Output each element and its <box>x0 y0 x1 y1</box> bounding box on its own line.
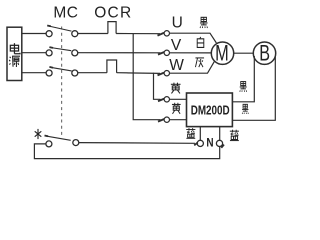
MC contact 2 <box>46 50 52 56</box>
terminal U <box>164 31 169 36</box>
terminal V <box>164 50 169 55</box>
svg-text:V: V <box>171 37 182 54</box>
tap from L1 down to DM200D <box>133 34 160 120</box>
aux contact (*) <box>46 141 52 147</box>
tap from L3 down to DM200D <box>154 73 161 100</box>
brake lead right <box>233 57 276 121</box>
blue lead right from box bottom <box>219 127 221 141</box>
brake B <box>253 42 275 64</box>
label gray (W wire) <box>195 58 204 67</box>
terminal yellow 1 <box>164 97 169 102</box>
wire L1 from box <box>22 33 46 35</box>
svg-text:MC: MC <box>53 4 78 21</box>
svg-text:M: M <box>215 40 229 65</box>
connector slash yellow 2 <box>158 119 164 122</box>
wire L3 to OCR <box>78 72 107 74</box>
MC linkage dashed line <box>61 27 63 137</box>
terminal W <box>164 71 169 76</box>
wire V to motor <box>170 52 212 54</box>
wire yellow2 to box <box>170 119 187 121</box>
terminal yellow 2 <box>164 117 169 122</box>
wire L2 from box <box>22 52 46 54</box>
brake lead left <box>233 56 255 102</box>
connector slash U <box>158 33 165 36</box>
wire L1 to U terminal <box>116 33 160 35</box>
MC contact 3 <box>46 70 52 76</box>
DM200D rectifier box <box>187 93 233 127</box>
wire L1 to OCR <box>78 33 108 35</box>
svg-text:OCR: OCR <box>94 5 132 22</box>
label blue 2 <box>230 130 239 141</box>
wire L2 to V terminal <box>78 52 161 54</box>
connector slash blue left <box>194 143 198 146</box>
wire L3 to W terminal <box>117 72 160 75</box>
connector slash yellow 1 <box>158 99 164 102</box>
svg-text:DM200D: DM200D <box>191 103 230 117</box>
label black (U wire) <box>200 17 208 28</box>
terminal blue right <box>216 140 222 146</box>
svg-text:B: B <box>259 40 270 65</box>
label black (brake lead 2) <box>242 104 248 114</box>
label black (brake lead 1) <box>240 82 247 92</box>
wire M to B <box>234 52 254 54</box>
label blue 1 <box>186 128 195 138</box>
asterisk mark <box>35 129 42 139</box>
wire U to motor <box>170 33 217 43</box>
svg-text:U: U <box>172 14 183 31</box>
blue lead left from box bottom <box>199 127 201 141</box>
power box 电源 <box>7 27 22 80</box>
motor M <box>211 42 233 64</box>
connector slash V <box>158 52 164 55</box>
svg-text:W: W <box>169 57 184 74</box>
svg-text:N: N <box>206 138 213 150</box>
label yellow 1 <box>171 83 181 94</box>
terminal blue left <box>197 140 203 146</box>
MC contact 1 <box>46 31 52 37</box>
connector slash blue right <box>221 145 224 148</box>
wire yellow1 to box <box>170 98 187 100</box>
connector slash W <box>158 73 165 76</box>
OCR heater hump 1 <box>108 22 116 34</box>
OCR heater hump 3 <box>107 60 117 73</box>
wire from aux contact to bottom rail <box>34 144 219 159</box>
wire aux contact to blue left terminal <box>79 142 195 145</box>
label white (V wire) <box>197 37 204 48</box>
wire L3 from box <box>22 72 46 74</box>
label yellow 2 <box>172 103 181 114</box>
wire W to motor <box>170 62 215 74</box>
